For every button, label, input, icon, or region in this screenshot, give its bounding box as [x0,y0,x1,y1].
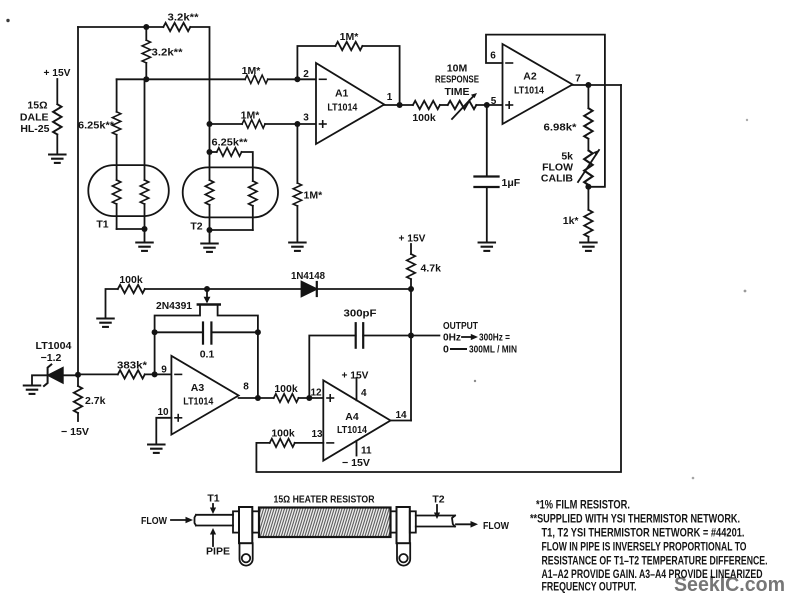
svg-text:2N4391: 2N4391 [156,300,192,312]
svg-text:0.1: 0.1 [200,349,215,361]
wire 3.2k to corner [190,27,209,180]
wire 1k to ground [587,237,589,242]
node pin2 junction [294,76,300,82]
wire T1 bottom [117,228,145,230]
ground under pin10 [148,445,164,453]
svg-text:LT1014: LT1014 [327,102,357,114]
wire A4 output to rail [391,420,412,422]
svg-text:T1: T1 [207,493,219,505]
collar left inner [252,511,259,532]
thermistor T1 left element [112,180,120,204]
svg-text:11: 11 [361,446,372,457]
wire pin10 to ground [156,418,171,444]
wire 6.25k right end down [242,152,253,181]
svg-text:FLOW IN PIPE IS INVERSELY PROP: FLOW IN PIPE IS INVERSELY PROPORTIONAL T… [542,540,747,554]
wire 1M to pin3 [265,123,316,125]
svg-text:+ 15V: + 15V [399,233,426,245]
node junction 3.2k bottom [143,76,149,82]
ground under 100k [97,319,113,327]
svg-text:RESISTANCE OF T1–T2 TEMPERATUR: RESISTANCE OF T1–T2 TEMPERATURE DIFFEREN… [542,554,768,568]
node output junction [408,333,414,339]
svg-text:+ 15V: + 15V [342,370,369,382]
label FLOW right with arrow [456,523,474,525]
potentiometer 10M RESPONSE TIME [448,101,477,109]
svg-text:2: 2 [303,69,309,80]
svg-text:7: 7 [575,74,581,85]
svg-text:15Ω: 15Ω [27,100,47,112]
capacitor 1uF [486,105,488,176]
svg-text:OUTPUT: OUTPUT [443,320,478,332]
capacitor 0.1 [155,331,203,333]
svg-text:FLOW: FLOW [483,520,509,532]
svg-text:*1% FILM RESISTOR.: *1% FILM RESISTOR. [536,498,630,512]
svg-text:A1: A1 [335,88,349,100]
svg-text:+ 15V: + 15V [44,67,71,79]
wire 100k/1N4148 row [106,289,118,318]
wire output arrow glyphs [462,336,474,338]
resistor 2.7k [77,375,79,386]
leg left with hole [240,543,253,565]
svg-text:10: 10 [157,407,169,418]
wire 1M to pin2 [268,78,316,80]
node pin12 junction [306,395,312,401]
wire 6.98k to 5k [587,139,589,151]
wire A2 output [573,84,622,86]
svg-text:1M*: 1M* [242,65,262,77]
node pin5 junction [484,102,490,108]
node pin3 junction [294,121,300,127]
svg-text:T1, T2 YSI THERMISTOR NETWORK: T1, T2 YSI THERMISTOR NETWORK = #44201. [542,526,745,540]
svg-text:PIPE: PIPE [206,546,230,558]
svg-text:DALE: DALE [20,112,49,124]
capacitor 300pF [309,336,355,399]
wire pin3 row [210,123,243,125]
diode 1N4148 [302,282,317,297]
wire 383k to pin9 [145,373,172,375]
wire 100k to diode [145,288,302,290]
node junction rail/6.25k right [207,149,213,155]
wire pin13 loop [256,85,621,472]
resistor 3.2k vertical (second) [145,27,147,40]
svg-text:4: 4 [361,388,367,399]
svg-text:LT1004: LT1004 [36,340,72,352]
ground under 1M [289,243,305,251]
svg-text:3.2k**: 3.2k** [152,47,184,59]
svg-text:6.25k**: 6.25k** [78,120,115,132]
svg-text:3.2k**: 3.2k** [168,12,200,24]
svg-text:300ML / MIN: 300ML / MIN [469,344,517,356]
resistor 1M to pin 2 [245,75,268,83]
resistor 1M to ground (pin3) [296,124,298,183]
resistor 3.2k top horizontal [163,23,190,31]
node A1 output junction [397,102,403,108]
thermistor T2 right element [249,181,257,206]
node rail/383k junction [75,372,81,378]
node 5k/1k junction [585,184,591,190]
pin 4 V+ [356,378,358,400]
node OUTPUT text [443,320,517,356]
svg-text:0: 0 [443,344,449,356]
svg-text:5: 5 [491,96,497,107]
svg-text:13: 13 [311,429,323,440]
ground under 1k [580,243,596,251]
resistor 4.7k [410,244,412,254]
pipe right stub [416,516,455,527]
svg-text:100k: 100k [412,112,436,124]
node junction rail/pin3 [207,121,213,127]
svg-text:−1.2: −1.2 [41,352,62,364]
wire LT1004 to ground [32,375,48,385]
collar right inner [391,511,397,532]
svg-text:100k: 100k [274,383,298,395]
wire 4.7k down rail [410,279,412,420]
svg-text:1N4148: 1N4148 [291,270,325,282]
svg-text:1M*: 1M* [241,110,261,122]
ground under 15 ohm [49,155,65,163]
svg-text:6: 6 [490,51,496,62]
svg-text:**SUPPLIED WITH YSI THERMISTOR: **SUPPLIED WITH YSI THERMISTOR NETWORK. [530,512,740,526]
heater resistor body [259,508,391,538]
svg-text:1μF: 1μF [502,177,521,189]
scan speckle artifacts [6,19,748,480]
node T2 bottom junction [207,227,213,233]
wire to pot [440,104,448,106]
pin 11 V- [356,441,358,456]
svg-text:9: 9 [161,365,167,376]
thermistor T2 left element [205,180,213,205]
svg-text:A3: A3 [191,382,205,394]
collar right outer [410,511,416,532]
svg-text:1k*: 1k* [563,215,580,227]
wire T2 bottom [210,229,253,231]
svg-text:15Ω HEATER RESISTOR: 15Ω HEATER RESISTOR [274,494,375,506]
node pin9 junction [152,371,158,377]
wire LT1004 to rail junction [63,374,78,376]
resistor 6.25k right horizontal [210,151,217,153]
svg-text:8: 8 [243,382,249,393]
node junction top 3.2k [143,24,149,30]
ground under T2 [201,244,217,252]
wire T2 to ground [209,230,211,243]
svg-text:LT1014: LT1014 [183,396,213,408]
svg-text:T2: T2 [190,221,202,233]
svg-text:− 15V: − 15V [342,457,370,469]
wire A1 output [384,104,413,106]
svg-text:− 15V: − 15V [61,426,89,438]
wire pot to pin5 [476,104,502,106]
resistor 100k (A3 top) [118,285,145,293]
thermistor network T1 oval [88,165,169,216]
node JFET gate junction [204,286,210,292]
node 4.7k/diode junction [408,286,414,292]
svg-text:1M*: 1M* [304,190,324,202]
collar left outer [233,511,239,532]
resistor 1M to pin 3 [242,120,265,128]
svg-text:T1: T1 [96,219,108,231]
wire top run to 3.2k [78,26,163,28]
node 0.1 cap left junction [152,329,158,335]
resistor 6.98k [584,108,592,139]
svg-text:FREQUENCY OUTPUT.: FREQUENCY OUTPUT. [542,580,637,594]
svg-text:1M*: 1M* [340,31,360,43]
svg-text:1: 1 [387,92,393,103]
wire T1 to ground [144,229,146,242]
node A3 out junction [255,395,261,401]
node T1 bottom junction [142,226,148,232]
ground under 1uF [479,243,495,251]
svg-text:300Hz =: 300Hz = [479,332,510,344]
resistor 100k (pin13) [295,442,324,444]
svg-text:RESPONSE: RESPONSE [435,74,479,86]
op-amp A2 [503,44,573,124]
op-amp A1 [316,63,384,144]
svg-text:4.7k: 4.7k [421,263,442,275]
wire A1 feedback up [297,46,335,79]
resistor 100k (A3-A4) [274,394,299,402]
potentiometer 5k FLOW CALIB [584,150,592,185]
svg-text:12: 12 [310,388,322,399]
wire resistor to ground [56,135,58,155]
resistor 1M feedback A1 [335,42,362,50]
flange left [239,507,252,543]
svg-text:T2: T2 [432,494,444,506]
svg-text:FLOW: FLOW [141,515,167,527]
pipe left stub [195,515,234,526]
resistor 6.25k left vertical [116,79,118,112]
thermistor network T2 oval [183,167,278,217]
wire OUTPUT tap [411,335,439,337]
wire to 1k [587,187,589,210]
ground under T1 [136,243,152,251]
svg-text:6.25k**: 6.25k** [212,137,249,149]
svg-text:6.98k*: 6.98k* [544,122,578,134]
wire diode to 4.7k node [317,288,411,290]
leg right with hole [397,543,410,565]
svg-text:A4: A4 [345,411,359,423]
svg-text:HL-25: HL-25 [20,123,49,135]
svg-text:383k*: 383k* [117,360,148,372]
node 0.1 cap right junction [255,329,261,335]
op-amp A4 [323,380,390,460]
thermistor T1 right element [144,79,146,180]
wire feedback to output [362,46,399,105]
node A2 output junction [585,82,591,88]
svg-text:LT1014: LT1014 [514,85,544,97]
svg-text:100k: 100k [271,428,295,440]
wire left rail vertical [77,27,79,375]
wire A2 pin6 feedback loop [486,35,605,187]
svg-text:14: 14 [395,410,407,421]
resistor 1k [584,210,592,237]
svg-text:100k: 100k [119,274,143,286]
svg-text:LT1014: LT1014 [337,424,367,436]
wire 100k to pin12 [299,397,324,399]
svg-text:0Hz: 0Hz [443,332,461,344]
svg-text:TIME: TIME [444,86,469,98]
flange right [397,507,410,543]
svg-text:A2: A2 [523,71,537,83]
wire to 383k [78,373,118,375]
ground under LT1004 [24,386,40,394]
wire +15V stem [56,79,58,104]
resistor 383k [118,370,145,378]
svg-text:2.7k: 2.7k [85,395,106,407]
svg-text:CALIB: CALIB [541,173,573,185]
svg-text:3: 3 [303,113,309,124]
wire pin2 row [117,78,246,80]
resistor 100k (A1 out) [413,101,440,109]
wire A3 output [239,397,274,399]
op-amp A3 [171,356,238,435]
svg-text:300pF: 300pF [344,308,378,320]
wire 6.98k top [587,85,589,108]
resistor 15 ohm DALE HL-25 [53,104,61,134]
